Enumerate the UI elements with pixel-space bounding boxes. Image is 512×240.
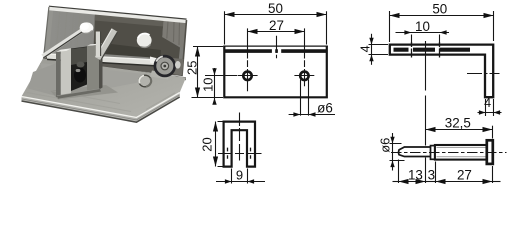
- bolt in channel: [74, 68, 86, 83]
- base shadow left of U: [28, 63, 60, 98]
- dim 32,5 extension line right: [492, 126, 494, 139]
- svg-text:ø6: ø6: [317, 101, 333, 116]
- back plate left edge highlight strip: [44, 7, 54, 59]
- base plate top surface: [22, 59, 187, 118]
- pin nub right of disc: [175, 61, 181, 69]
- svg-text:27: 27: [269, 18, 284, 33]
- U-channel left leg front face: [61, 49, 71, 96]
- hole right of back plate: [137, 33, 152, 47]
- diagonal pin rod: [41, 23, 92, 58]
- dia6 extension lines: [301, 80, 309, 116]
- dia6 pin dimension line with outside arrows: [392, 133, 394, 171]
- back plate left edge line: [44, 7, 49, 59]
- dim 4 bottom line with outside arrows: [478, 112, 502, 114]
- dim 10 extension lines: [412, 35, 440, 45]
- bottom dims extension lines: [399, 158, 493, 184]
- crossbar rod: [47, 54, 163, 67]
- pin body chamfer lines: [437, 148, 486, 157]
- leg horizontal centerline: [394, 48, 471, 52]
- stud on base: [139, 75, 151, 87]
- bend line: [225, 49, 327, 53]
- svg-text:27: 27: [457, 167, 472, 182]
- plate top edge: [223, 45, 328, 47]
- L-bracket outline: [390, 45, 493, 98]
- svg-text:10: 10: [415, 19, 430, 34]
- U horizontal centerline: [218, 153, 262, 155]
- base darker region behind U: [40, 63, 150, 90]
- pin centerline: [391, 152, 507, 154]
- dim 4 left extension lines: [369, 45, 389, 55]
- U-channel interior: [71, 47, 87, 92]
- back plate top back edge line: [49, 6, 187, 19]
- junction shadow plate/base: [43, 58, 186, 80]
- U-channel foot: [57, 89, 103, 99]
- pin flange: [487, 140, 493, 164]
- back plate lower strip under crossbar: [44, 57, 182, 77]
- svg-text:50: 50: [432, 2, 447, 17]
- svg-text:ø6: ø6: [378, 138, 393, 153]
- hole left centerlines: [238, 60, 258, 91]
- dim 27 tail right: [493, 181, 501, 183]
- plate top centerline: [276, 36, 278, 58]
- base shadow under mechanism: [50, 85, 118, 100]
- dim 20 line: [215, 122, 217, 167]
- U leg hole tick right: [250, 148, 252, 159]
- hidden hole line a: [411, 42, 413, 58]
- dim 27 line: [436, 181, 493, 183]
- svg-text:10: 10: [200, 77, 215, 91]
- rod end highlight: [150, 57, 163, 67]
- back plate dark zone upper transition: [95, 14, 164, 27]
- dia6 dimension line with outside arrows: [289, 114, 335, 116]
- U-channel right leg side face: [99, 44, 103, 90]
- back plate left column streaks: [56, 9, 81, 59]
- U leg hole tick left: [227, 148, 229, 159]
- dim 10 extension line at hole level: [205, 75, 237, 77]
- dim 10 line with outside arrows: [214, 68, 216, 105]
- back plate top edge band: [49, 7, 187, 23]
- dia6 pin extension lines: [390, 144, 405, 161]
- U-channel outline: [224, 122, 255, 167]
- svg-text:32,5: 32,5: [445, 115, 471, 130]
- flat latch bar: [95, 29, 117, 61]
- dim 9 line with outside arrows: [216, 181, 265, 183]
- svg-text:50: 50: [268, 1, 283, 16]
- pin body: [435, 145, 487, 160]
- hinge disc: [155, 56, 175, 76]
- plate front view outline: [224, 46, 326, 97]
- U-channel right leg front face: [87, 46, 99, 92]
- dim 4 left line with outside arrows: [371, 34, 373, 65]
- dim 32,5 line: [426, 129, 493, 131]
- dim 20 extension lines: [218, 122, 223, 167]
- back plate face: [44, 7, 187, 76]
- svg-text:9: 9: [236, 167, 243, 182]
- svg-text:4: 4: [358, 45, 372, 52]
- U-channel left leg side face: [56, 50, 61, 97]
- U-channel right leg top cap: [87, 44, 103, 46]
- dim 4 bottom extension lines: [486, 99, 494, 116]
- dim 50 line: [390, 15, 494, 17]
- dim 50 line: [225, 14, 327, 16]
- svg-text:4: 4: [484, 96, 491, 110]
- long extension line x425: [425, 41, 427, 146]
- U foot under shadow: [57, 89, 101, 99]
- base bottom contour: [22, 97, 180, 122]
- base front thickness band: [22, 93, 180, 123]
- dim 27 extension lines: [248, 28, 305, 58]
- dim 9 extension lines: [232, 169, 248, 184]
- dim 50 extension lines: [225, 11, 327, 44]
- svg-text:25: 25: [184, 61, 199, 75]
- hole right centerlines: [294, 60, 314, 86]
- hole left: [243, 72, 251, 80]
- U vertical centerline: [239, 113, 241, 161]
- hole right: [300, 72, 308, 80]
- dim 25 extension lines: [192, 47, 224, 98]
- dim 13 tail left: [393, 181, 399, 183]
- dim 3 line: [426, 181, 436, 183]
- back plate dark recess zone: [94, 14, 181, 62]
- pin collar/groove: [431, 146, 435, 160]
- back plate right column: [162, 20, 186, 49]
- base band mid line: [22, 95, 180, 120]
- base edge highlight line: [22, 93, 180, 118]
- dim 27 line: [248, 31, 305, 33]
- svg-text:20: 20: [200, 137, 215, 151]
- back plate right edge line: [182, 20, 187, 76]
- thin vertical post: [96, 32, 100, 58]
- back plate darker band above crossbar: [95, 42, 161, 58]
- hidden hole line b: [439, 42, 441, 58]
- disc bracket foot: [150, 71, 170, 80]
- dim 10 line with outside arrows: [396, 32, 450, 34]
- back plate right column streaks: [167, 21, 180, 45]
- vertical leg hole centerline: [467, 73, 500, 75]
- svg-text:13: 13: [408, 167, 423, 182]
- svg-text:3: 3: [428, 167, 435, 182]
- dim 13 line: [399, 181, 426, 183]
- dim 50 extension lines: [390, 11, 494, 42]
- base surface streaks: [27, 88, 175, 112]
- pin rod with chamfered tip: [399, 147, 431, 157]
- U-channel left leg top cap: [56, 48, 72, 52]
- dim 25 line: [197, 47, 199, 98]
- shadow right of disc: [172, 58, 184, 75]
- pin ball end and hole left: [80, 22, 94, 33]
